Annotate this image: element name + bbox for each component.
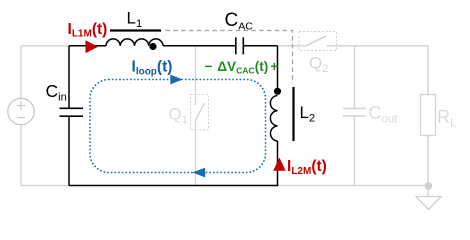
wire black top middle xyxy=(163,45,236,47)
inductor L1 core bar xyxy=(110,29,161,31)
wire grey RL branch upper xyxy=(427,46,429,95)
switch Q2 dashed box xyxy=(299,32,337,51)
switch Q1 dashed box xyxy=(191,95,209,131)
voltage source Vin xyxy=(8,98,34,124)
wire black top-right segment xyxy=(243,45,277,47)
loop current dotted path Iloop xyxy=(90,80,266,173)
inductor L1 coil xyxy=(106,39,163,46)
capacitor Cin xyxy=(60,108,84,116)
wire black left vertical upper (to Cin) xyxy=(68,46,70,109)
inductor L2 core bar xyxy=(292,87,294,141)
wire grey Q1 branch upper xyxy=(195,46,197,105)
wire grey Cout branch upper xyxy=(354,46,356,109)
wire grey source top xyxy=(20,46,22,99)
junction node xyxy=(425,182,433,190)
inductor L2 coil xyxy=(270,96,277,142)
arrow red IL2M xyxy=(273,158,285,171)
arrow blue loop bottom (left) xyxy=(192,168,205,178)
wire grey bottom-left horizontal xyxy=(21,185,69,187)
wire grey RL to ground xyxy=(427,136,429,197)
inductor L1 dot xyxy=(149,43,156,50)
capacitor Cout xyxy=(343,109,366,116)
arrow blue loop top (right) xyxy=(170,75,183,85)
wire black bottom horizontal xyxy=(69,185,278,187)
inductor L2 dot xyxy=(274,88,281,95)
wire grey bottom-right horizontal xyxy=(278,185,429,187)
wire black left vertical lower (Cin to bottom) xyxy=(68,116,70,185)
switch Q2 blade xyxy=(306,36,327,46)
wire grey Q2 to RL corner xyxy=(327,45,428,47)
wire black top-left segment xyxy=(69,45,106,47)
resistor RL xyxy=(421,95,436,136)
wire grey top-left horizontal xyxy=(21,45,69,47)
wire grey Q1 branch lower xyxy=(195,121,197,186)
wire grey Cout branch lower xyxy=(354,116,356,186)
arrow red IL1M xyxy=(86,40,99,53)
wire black L2 bottom segment xyxy=(277,141,279,186)
wire black right vertical down to L2 xyxy=(277,46,279,88)
wire grey source bottom xyxy=(20,125,22,186)
ground xyxy=(416,197,441,210)
wire grey top-right to Q2 xyxy=(279,45,307,47)
capacitor CAC xyxy=(236,37,244,54)
coupled-core dashed link L1 to L2 xyxy=(166,31,293,84)
switch Q1 blade xyxy=(195,103,205,121)
